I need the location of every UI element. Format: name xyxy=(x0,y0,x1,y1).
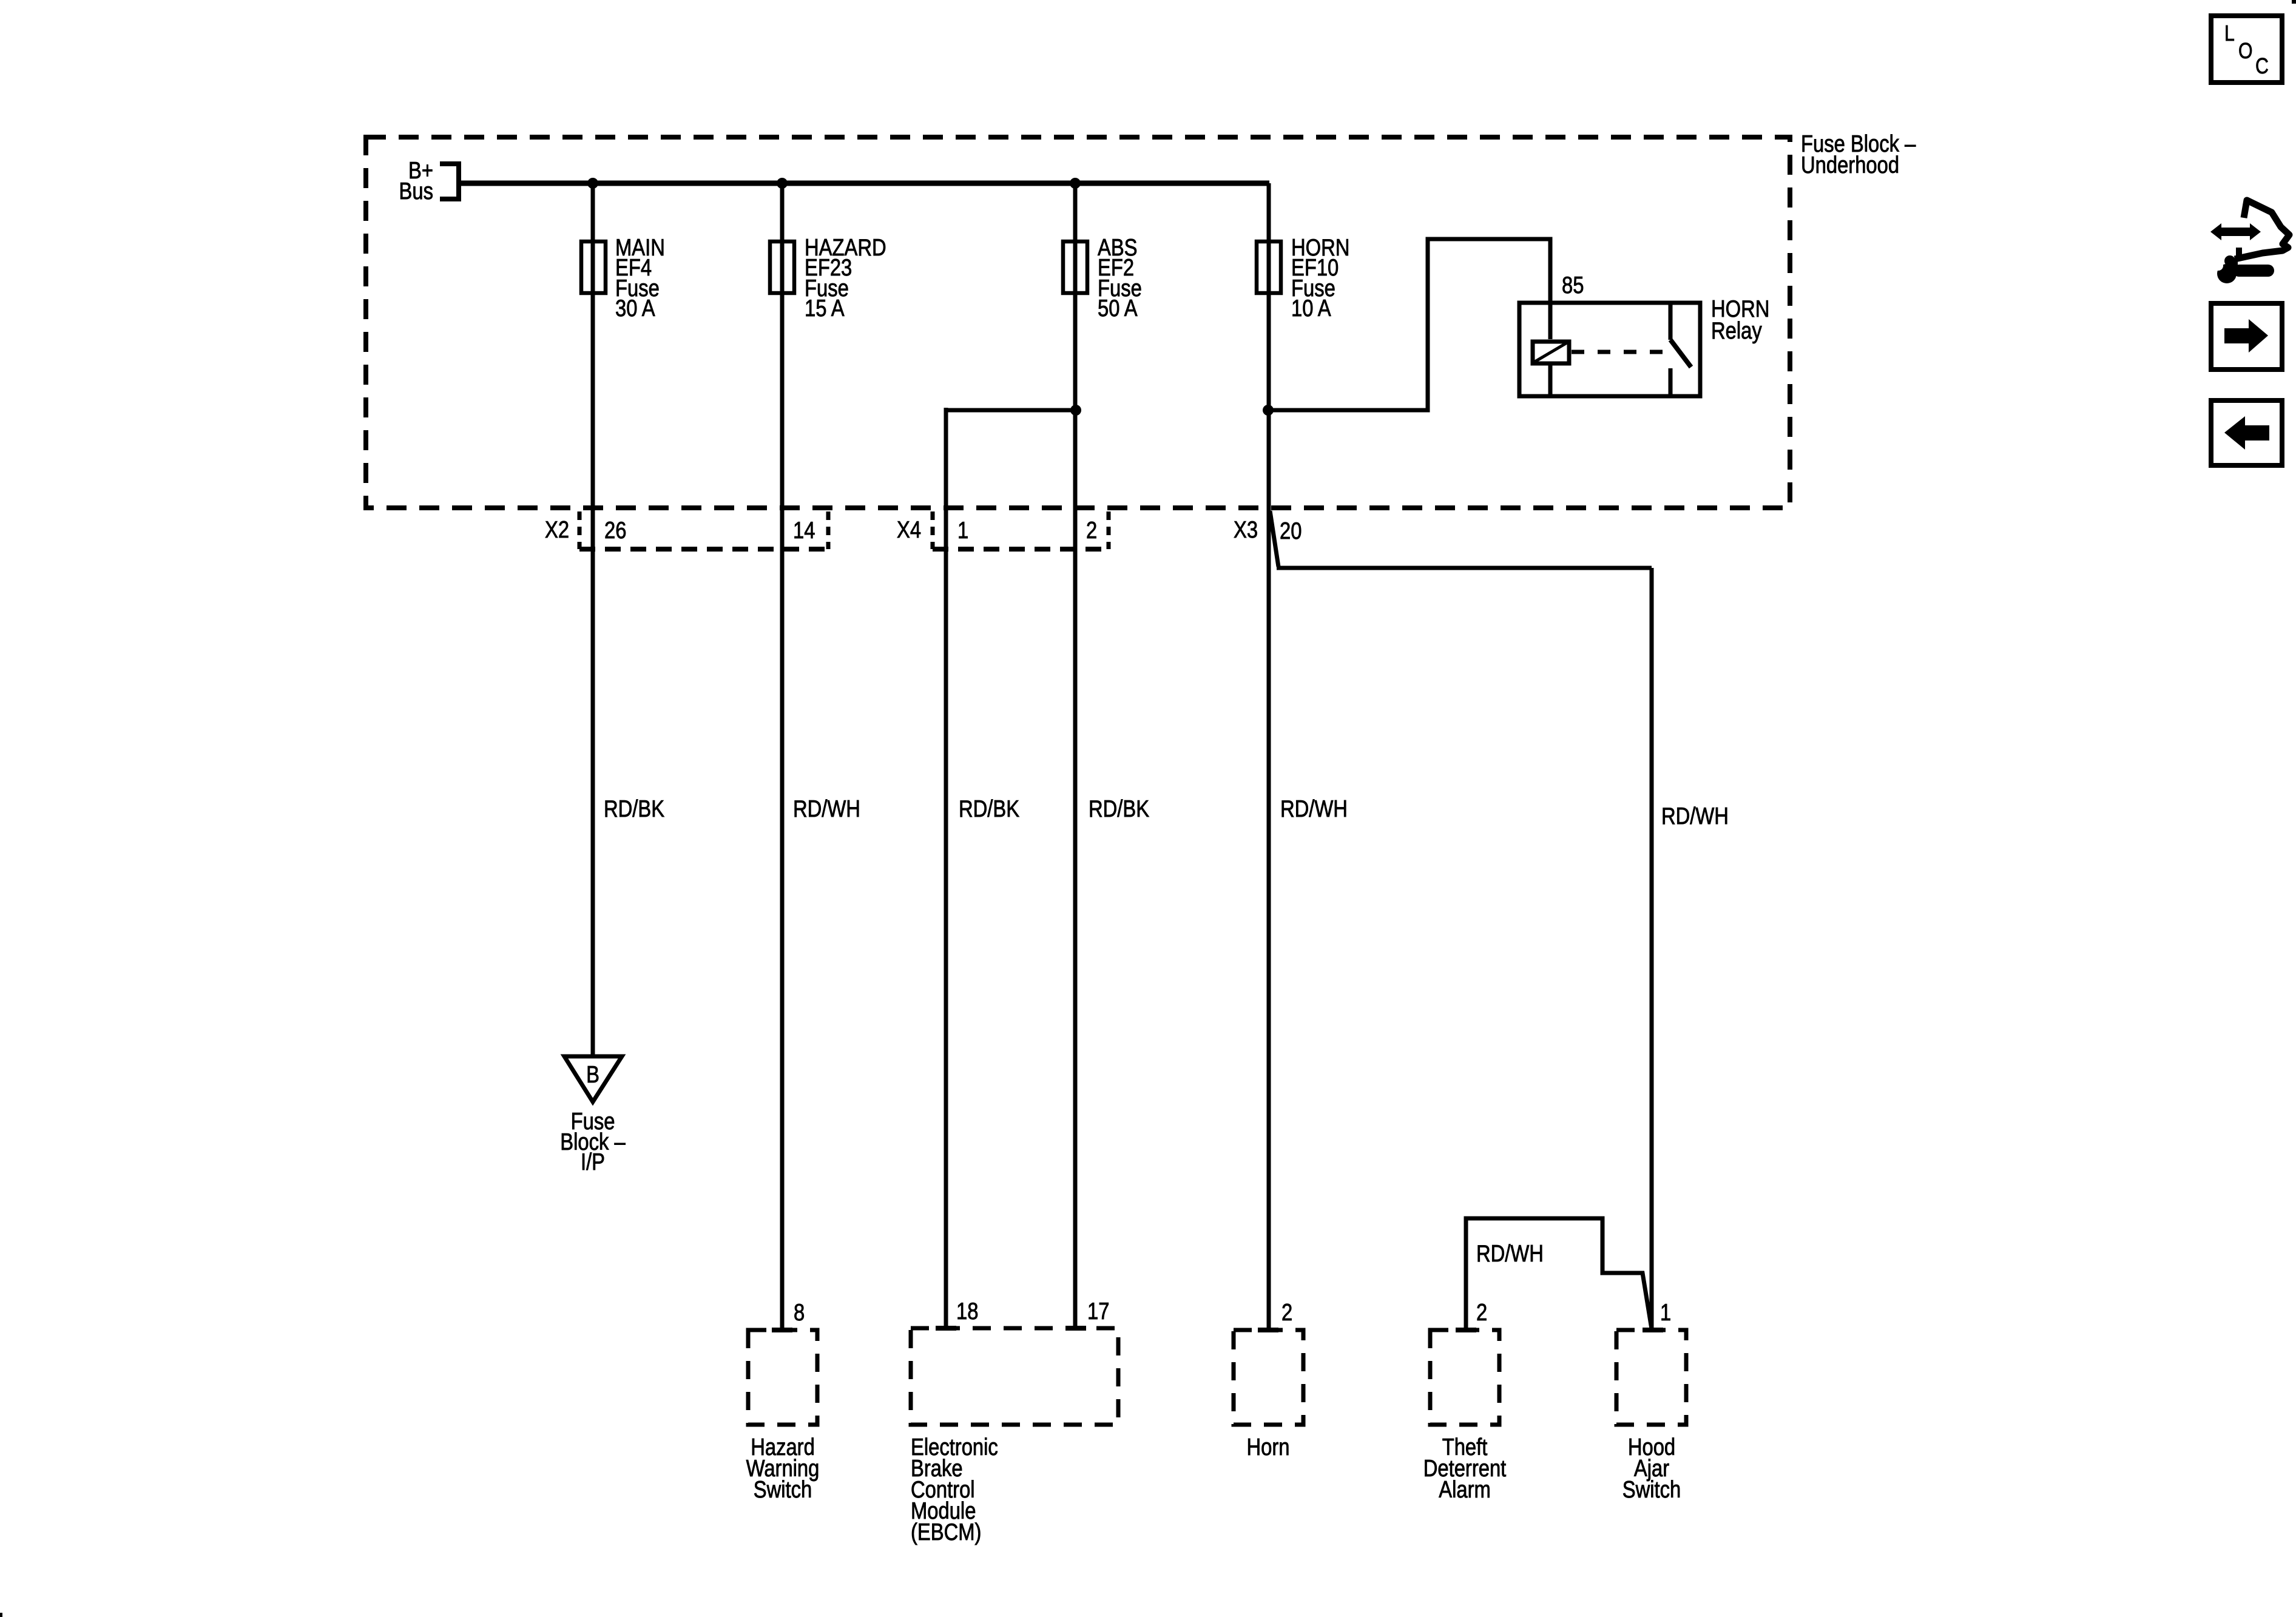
wire X3 jog diagonal xyxy=(1270,511,1278,567)
svg-text:C: C xyxy=(2255,55,2269,79)
relay coil xyxy=(1533,342,1569,363)
junction dot EBCM branch xyxy=(1070,405,1081,416)
label MAIN EF4 Fuse 30A xyxy=(615,234,665,321)
label Fuse Block - I/P xyxy=(560,1107,625,1175)
icon hood tab xyxy=(2236,248,2242,258)
label Hood Ajar Switch xyxy=(1622,1433,1681,1502)
svg-text:15 A: 15 A xyxy=(805,294,845,321)
pin bar ebcm 18 xyxy=(936,1326,956,1331)
svg-text:17: 17 xyxy=(1087,1297,1109,1324)
svg-text:30 A: 30 A xyxy=(615,294,655,321)
svg-text:14: 14 xyxy=(793,516,815,543)
component Hazard Warning Switch box xyxy=(748,1330,817,1425)
fuse EF2 ABS xyxy=(1063,241,1087,293)
junction dot HAZARD xyxy=(777,178,788,189)
svg-text:X2: X2 xyxy=(545,516,569,542)
pin bar horn 2 xyxy=(1258,1328,1278,1332)
svg-text:Horn: Horn xyxy=(1247,1433,1290,1460)
svg-text:B: B xyxy=(586,1061,599,1087)
svg-text:RD/BK: RD/BK xyxy=(604,795,664,822)
component EBCM box xyxy=(911,1328,1118,1425)
connector X4 bottom dashed edge xyxy=(933,547,1109,552)
junction dot MAIN xyxy=(587,178,598,189)
junction dot ABS xyxy=(1070,178,1081,189)
svg-text:2: 2 xyxy=(1086,516,1097,543)
relay switch lower contact xyxy=(1669,368,1673,396)
label HAZARD EF23 Fuse 15A xyxy=(805,234,886,321)
page corner mark bottom left xyxy=(0,1613,2,1617)
connector X4 left dashed edge xyxy=(931,511,935,549)
svg-text:85: 85 xyxy=(1562,271,1584,298)
component Horn box xyxy=(1234,1330,1303,1425)
svg-text:L: L xyxy=(2224,22,2235,46)
svg-text:20: 20 xyxy=(1280,517,1302,544)
svg-text:Switch: Switch xyxy=(754,1476,812,1502)
relay HORN box xyxy=(1519,303,1700,396)
icon right arrow xyxy=(2224,319,2268,353)
wire HAZARD fuse vertical xyxy=(780,183,785,1330)
wire EBCM branch vertical xyxy=(944,408,948,1330)
svg-text:Switch: Switch xyxy=(1622,1476,1681,1502)
connector X2 left dashed edge xyxy=(578,511,582,549)
LOC letters xyxy=(2224,22,2269,79)
svg-text:RD/BK: RD/BK xyxy=(959,795,1019,822)
icon left arrow box xyxy=(2211,400,2282,465)
svg-text:X3: X3 xyxy=(1234,516,1258,542)
wire RD/WH horizontal to right xyxy=(1277,566,1652,570)
svg-text:I/P: I/P xyxy=(581,1148,605,1175)
wire horn relay branch xyxy=(1268,239,1550,410)
relay switch upper contact xyxy=(1669,302,1673,340)
fuse EF23 HAZARD xyxy=(770,241,794,293)
svg-text:2: 2 xyxy=(1281,1298,1292,1325)
relay coil diagonal xyxy=(1534,342,1568,362)
icon right arrow box xyxy=(2211,303,2282,370)
wire B+ bus horizontal xyxy=(459,181,1269,186)
pin bar theft 2 xyxy=(1456,1328,1476,1332)
wire MAIN fuse vertical xyxy=(591,183,595,1056)
node B+ Bus bracket xyxy=(440,164,459,199)
connector X4 right dashed edge xyxy=(1107,511,1111,549)
svg-text:O: O xyxy=(2238,39,2253,64)
wire HORN fuse vertical xyxy=(1267,183,1271,1330)
relay switch blade xyxy=(1670,340,1691,367)
svg-text:8: 8 xyxy=(794,1298,805,1325)
icon wrench xyxy=(2213,255,2274,283)
connector X2 bottom dashed edge xyxy=(579,547,828,552)
wire ABS fuse vertical xyxy=(1073,183,1078,1330)
fuse EF4 MAIN xyxy=(581,241,606,293)
connector X2 right dashed edge xyxy=(826,511,831,549)
svg-text:RD/WH: RD/WH xyxy=(1280,795,1348,822)
label Theft Deterrent Alarm xyxy=(1423,1433,1507,1502)
pin bar hazard 8 xyxy=(772,1328,792,1332)
wire theft branch xyxy=(1466,1218,1652,1330)
icon hood outline xyxy=(2235,200,2289,259)
fuse EF10 HORN xyxy=(1257,241,1281,293)
svg-text:1: 1 xyxy=(957,516,968,543)
icon double arrow xyxy=(2210,223,2261,240)
junction dot HORN relay branch xyxy=(1263,405,1274,416)
pin bar hood 1 xyxy=(1643,1328,1663,1332)
svg-text:26: 26 xyxy=(604,516,626,543)
wire coil to box bottom xyxy=(1548,365,1553,396)
svg-text:2: 2 xyxy=(1476,1298,1487,1325)
icon left arrow xyxy=(2224,416,2269,450)
svg-text:RD/WH: RD/WH xyxy=(1476,1240,1544,1266)
svg-text:X4: X4 xyxy=(897,516,921,542)
svg-text:Relay: Relay xyxy=(1711,317,1762,343)
label EBCM xyxy=(911,1433,998,1545)
label B+ Bus xyxy=(399,157,433,204)
ground triangle B fuse block IP xyxy=(564,1056,622,1102)
relay actuator dashed line xyxy=(1572,350,1673,354)
svg-text:50 A: 50 A xyxy=(1098,294,1138,321)
svg-text:RD/WH: RD/WH xyxy=(1661,802,1729,829)
wire RD/WH right vertical xyxy=(1650,568,1654,1330)
svg-text:Bus: Bus xyxy=(399,177,433,204)
svg-text:10 A: 10 A xyxy=(1291,294,1331,321)
fuse block underhood dashed box xyxy=(366,137,1790,508)
svg-text:1: 1 xyxy=(1660,1298,1671,1325)
svg-text:RD/WH: RD/WH xyxy=(793,795,860,822)
label HORN EF10 Fuse 10A xyxy=(1291,234,1349,321)
label Fuse Block - Underhood xyxy=(1801,130,1916,178)
component Hood Ajar Switch box xyxy=(1616,1330,1686,1425)
label HORN Relay xyxy=(1711,295,1769,343)
label ABS EF2 Fuse 50A xyxy=(1098,234,1142,321)
svg-text:Underhood: Underhood xyxy=(1801,151,1899,178)
svg-text:Alarm: Alarm xyxy=(1439,1476,1491,1502)
LOC icon box xyxy=(2211,16,2282,83)
page corner mark top right xyxy=(2292,0,2296,4)
wire EBCM branch horizontal xyxy=(946,408,1076,413)
svg-text:18: 18 xyxy=(956,1297,978,1324)
component Theft Deterrent Alarm box xyxy=(1430,1330,1499,1425)
svg-text:RD/BK: RD/BK xyxy=(1089,795,1149,822)
svg-text:(EBCM): (EBCM) xyxy=(911,1518,981,1545)
label Hazard Warning Switch xyxy=(746,1433,820,1502)
pin bar ebcm 17 xyxy=(1065,1326,1086,1331)
